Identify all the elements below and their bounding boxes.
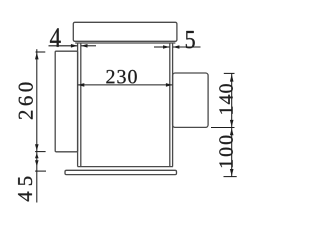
arrow dim100 top [230,128,234,135]
arrow dim140 bottom [230,120,234,127]
left wall outer line [77,43,79,167]
dim 4 line left tail [49,45,78,47]
label 230 [106,70,136,84]
dim 140 line [231,73,233,127]
arrow dim230 left [78,83,85,87]
right wall inner line [169,43,171,167]
dim 100 line [231,128,233,177]
label 4 [50,28,61,46]
dim 100 bottom tick [224,176,237,178]
arrow dim4 right [81,44,88,48]
arrow dim100 bottom [230,169,234,176]
dim 45 line [36,151,38,202]
arrow dim140 top [230,74,234,82]
arrow dim230 right [166,83,173,87]
dim 260 line [36,49,38,151]
dim 140 top tick [224,72,235,74]
right side box [173,73,209,127]
top flange plate [73,22,177,41]
label 140 [219,84,233,113]
dim 5 line left tail [154,46,170,48]
label 260 [19,83,33,120]
dim 4 line right tail [81,45,96,47]
dim 140/100 shared tick [211,127,235,129]
arrow dim45 down [35,160,39,166]
label 5 [186,31,195,48]
dim 45 bottom tick [35,170,46,172]
under-flange plate line [75,42,175,44]
dim 260 top tick [36,51,46,53]
arrow dim5 left [163,45,170,49]
arrow dim260 top [35,52,39,59]
dim 260/45 shared tick [35,151,46,153]
left wall inner line [80,43,82,167]
arrow dim5 right [173,45,180,49]
label 100 [219,136,233,167]
arrow dim260 bottom [35,144,39,151]
arrow dim45 up [35,153,39,158]
upper base plate top line [78,166,173,168]
dim 5 line right tail [173,46,201,48]
left side panel [55,51,77,152]
lower base plate [65,170,177,174]
dim 230 line [78,84,173,86]
arrow dim4 left [71,44,78,48]
label 45 [18,177,32,202]
right wall outer line [172,43,174,167]
